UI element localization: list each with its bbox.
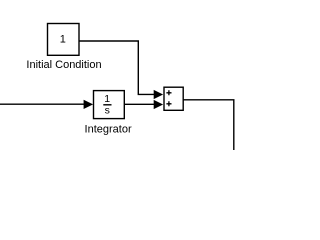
wire main input to Integrator (0, 100, 93, 109)
block Initial Condition (48, 24, 80, 56)
wire from Initial Condition to Sum top input (79, 41, 163, 99)
block Sum (164, 87, 183, 110)
svg-text:1: 1 (60, 34, 66, 46)
svg-text:Integrator: Integrator (85, 123, 132, 135)
svg-text:1: 1 (104, 93, 110, 105)
svg-text:s: s (105, 105, 110, 117)
block Integrator 1/s (94, 91, 125, 119)
svg-text:Initial Condition: Initial Condition (26, 59, 101, 71)
wire Integrator output to Sum bottom input (124, 100, 163, 109)
wire Sum output going right then down off bottom edge (183, 100, 234, 150)
